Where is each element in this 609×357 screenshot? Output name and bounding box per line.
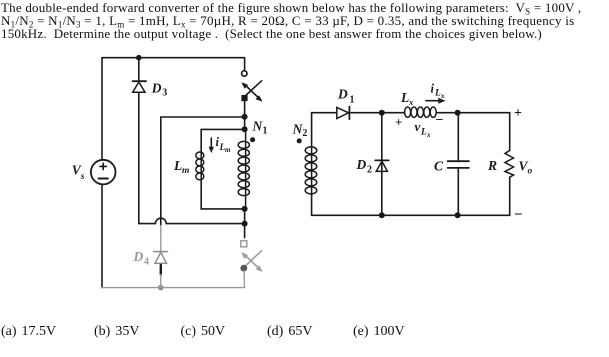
source Vs: [91, 160, 116, 185]
wire S1 top lead: [244, 58, 246, 71]
node D4 anode on bottom rail: [158, 285, 164, 291]
svg-text:x: x: [426, 131, 431, 139]
svg-text:L: L: [400, 90, 409, 105]
svg-text:+: +: [395, 115, 402, 130]
node N1 top (dot): [242, 126, 248, 132]
diode D3: [133, 81, 146, 92]
wire D4 anode lead (dark then grey): [160, 265, 162, 275]
inductor Lm top lead: [201, 129, 244, 152]
wire Lx to node: [436, 112, 458, 114]
paragraph line 3: [1, 26, 542, 42]
winding N2: [305, 146, 317, 194]
capacitor C bottom lead: [457, 168, 459, 215]
svg-text:1: 1: [350, 95, 355, 106]
winding N1: [238, 129, 249, 209]
choice a: [1, 324, 56, 340]
wire clamp upper horizontal: [161, 116, 245, 118]
capacitor C top lead: [457, 113, 459, 161]
resistor R: [505, 151, 514, 178]
node clamp upper at main vertical: [242, 114, 248, 120]
wire bottom rail right: [312, 214, 510, 216]
wire N1 bottom to S2: [244, 209, 246, 238]
svg-text:C: C: [434, 159, 444, 174]
svg-text:L: L: [173, 158, 182, 173]
inductor Lm: [196, 152, 204, 180]
svg-text:D: D: [356, 157, 367, 172]
diode D1: [337, 107, 350, 120]
polarity dot N2: [297, 138, 302, 143]
diode D4 (grey): [154, 252, 168, 264]
svg-text:R: R: [487, 158, 497, 173]
wire secondary bottom lead: [311, 195, 313, 216]
node N1 bottom (dot): [242, 206, 248, 212]
svg-text:s: s: [80, 172, 85, 182]
wire top rail: [102, 57, 245, 59]
switch S2 (grey): [240, 241, 262, 272]
node D2 bottom: [379, 212, 385, 218]
wire clamp lower horizontal with hop: [139, 218, 245, 223]
wire left vertical upper (Vs +): [101, 58, 103, 160]
svg-text:L: L: [420, 128, 427, 138]
wire D1 to Lx: [349, 112, 404, 114]
svg-text:1: 1: [263, 125, 268, 136]
svg-text:D: D: [133, 249, 144, 264]
diode D2: [375, 160, 389, 171]
wire bottom rail (left, grey): [102, 287, 245, 289]
current arrow iLx: [426, 98, 446, 104]
svg-text:4: 4: [144, 257, 149, 268]
choice e: [353, 324, 405, 340]
svg-text:D: D: [337, 87, 348, 102]
svg-text:m: m: [225, 146, 231, 154]
svg-text:m: m: [182, 166, 189, 176]
svg-text:3: 3: [162, 88, 167, 99]
svg-text:2: 2: [302, 128, 307, 139]
paragraph line 1: [1, 0, 581, 16]
node C bottom: [455, 212, 461, 218]
wire D3 cathode lead: [138, 58, 140, 81]
wire left vertical lower (Vs -): [101, 184, 103, 287]
polarity dot N1: [250, 137, 255, 142]
wire secondary top lead: [312, 113, 337, 147]
wire clamp left vertical: [160, 117, 162, 226]
capacitor C: [448, 161, 469, 168]
inductor Lx: [405, 107, 437, 117]
node D2 top: [379, 110, 385, 116]
svg-text:x: x: [440, 92, 445, 100]
switch S1: [241, 71, 262, 102]
wire top rail to R: [458, 113, 509, 151]
choice c: [181, 324, 226, 340]
svg-text:v: v: [415, 119, 421, 134]
wire clamp left vertical lower (grey): [160, 226, 162, 252]
wire S1 bottom lead: [244, 101, 246, 129]
current arrow iLm: [209, 138, 214, 153]
diode D2 vertical wire: [381, 113, 383, 216]
wire S2 to bottom rail (grey): [243, 271, 245, 288]
node clamp lower at main vertical: [242, 221, 248, 227]
paragraph line 2: [1, 13, 574, 29]
choice b: [94, 324, 139, 340]
label + vLx -: [395, 113, 444, 139]
svg-text:−: −: [436, 113, 444, 128]
svg-text:+: +: [514, 106, 522, 121]
wire D3 anode lead: [138, 92, 140, 223]
resistor R bottom lead: [509, 177, 511, 215]
svg-text:o: o: [528, 167, 533, 177]
svg-text:i: i: [431, 82, 435, 96]
svg-text:L: L: [434, 89, 441, 99]
svg-text:D: D: [151, 81, 162, 96]
node C top: [455, 110, 461, 116]
inductor Lm bottom lead: [201, 180, 244, 209]
svg-text:−: −: [514, 207, 523, 223]
svg-text:2: 2: [367, 165, 372, 176]
svg-text:x: x: [408, 97, 414, 107]
choice d: [267, 324, 312, 340]
node D3 top rail junction: [136, 55, 142, 61]
